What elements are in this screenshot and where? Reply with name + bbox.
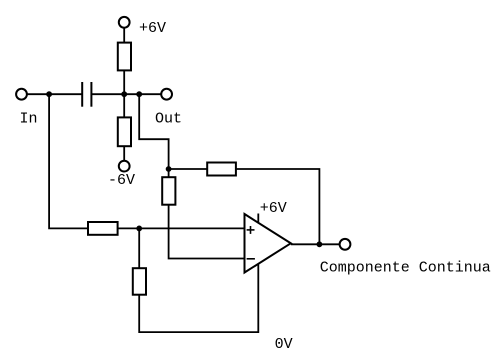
svg-text:+6V: +6V — [260, 200, 287, 217]
terminal Out — [161, 89, 172, 100]
node junction on In net — [46, 91, 52, 97]
pin + symbol — [247, 226, 255, 234]
wire — [27, 93, 82, 95]
wire — [236, 169, 320, 244]
capacitor C1 — [82, 82, 91, 107]
wire — [49, 94, 88, 228]
node junction on bias net — [121, 91, 127, 97]
resistor R2 — [118, 117, 131, 146]
svg-text:-6V: -6V — [108, 172, 135, 189]
svg-text:+6V: +6V — [139, 20, 166, 37]
terminal In — [16, 89, 27, 100]
svg-text:Componente Continua: Componente Continua — [320, 259, 491, 276]
wire — [118, 227, 245, 229]
wire — [139, 264, 258, 332]
pin - symbol — [247, 258, 255, 260]
resistor R1 — [118, 43, 131, 71]
node junction right of capacitor — [136, 91, 142, 97]
node junction at + input net — [136, 226, 142, 232]
wire — [91, 93, 161, 95]
terminal -6V — [119, 161, 130, 172]
terminal Componente Continua — [340, 239, 351, 250]
wire — [169, 205, 245, 259]
wire — [123, 146, 125, 161]
resistor R5 — [207, 163, 236, 176]
wire — [138, 228, 140, 268]
wire — [123, 70, 125, 117]
svg-text:0V: 0V — [275, 336, 293, 353]
resistor R6 — [162, 177, 175, 205]
wire — [123, 28, 125, 43]
wire — [169, 168, 208, 170]
terminal +6V (top) — [119, 17, 130, 28]
svg-text:In: In — [20, 111, 38, 128]
wire — [139, 94, 168, 169]
resistor R4 — [133, 268, 146, 295]
node junction feedback — [166, 166, 172, 172]
node junction output — [317, 241, 323, 247]
wire V+ pin — [257, 214, 259, 224]
wire output — [291, 243, 340, 245]
op-amp U1 — [245, 214, 291, 273]
wire — [168, 169, 170, 177]
svg-text:Out: Out — [155, 111, 182, 128]
resistor R3 — [88, 222, 118, 235]
